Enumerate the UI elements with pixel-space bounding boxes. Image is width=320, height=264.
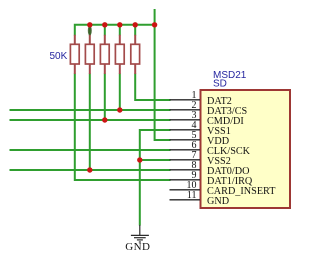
wire DAT0/DO row pin 8: [10, 169, 171, 171]
wire VSS2 pin 7: [140, 159, 171, 161]
pin 6 stub: [170, 149, 201, 151]
pin 10 stub: [170, 189, 201, 191]
pin 2 stub: [170, 109, 201, 111]
wire VSS1 pin 4 to GND vertical: [140, 130, 171, 226]
resistor R4: [119, 35, 121, 45]
wire VDD vertical to pin 5: [155, 9, 171, 140]
pin 11 stub: [170, 199, 201, 201]
svg-text:GND: GND: [125, 241, 150, 253]
junction dot R3 CMD row: [102, 117, 107, 122]
component U1 MSD21 SD connector box: [201, 90, 291, 208]
wire resistor R4 top: [119, 24, 121, 36]
svg-text:GND: GND: [207, 196, 229, 207]
wire R5 bottom to pin 1 DAT2: [135, 74, 170, 101]
wire resistor R5 top: [134, 24, 136, 36]
wire DAT3/CS row pin 2: [10, 109, 171, 111]
svg-text:SD: SD: [213, 79, 227, 90]
wire resistor R3 top: [104, 24, 106, 36]
svg-text:11: 11: [187, 190, 197, 201]
resistor R1: [74, 35, 76, 45]
pin 9 stub: [170, 179, 201, 181]
dark artifact under junction: [88, 26, 92, 36]
pin 3 stub: [170, 119, 201, 121]
wire CMD/DI row pin 3: [10, 119, 171, 121]
wire top bus: [75, 25, 155, 36]
pin 4 stub: [170, 129, 201, 131]
pin 5 stub: [170, 139, 201, 141]
wire R1 bottom to pin 9 DAT1/IRQ: [75, 74, 171, 181]
junction dot R4 DAT3 row: [117, 107, 122, 112]
junction dot VSS2: [137, 157, 142, 162]
junction dot bus R4: [117, 22, 122, 27]
wire resistor R2 top: [89, 24, 91, 36]
wire R2 bottom to DAT0 row: [89, 74, 91, 171]
resistor R2: [89, 35, 91, 45]
wire CLK/SCK row pin 6: [10, 149, 171, 151]
wire R3 bottom to CMD row: [104, 74, 106, 121]
pin 7 stub: [170, 159, 201, 161]
ground symbol: [131, 225, 149, 242]
resistor R3: [104, 35, 106, 45]
junction dot bus VDD: [152, 22, 157, 27]
junction dot bus R5: [133, 22, 138, 27]
junction dot bus R2: [87, 22, 92, 27]
junction dot bus R3: [102, 22, 107, 27]
resistor R5: [134, 35, 136, 45]
junction dot R2 DAT0 row: [87, 167, 92, 172]
wire R4 bottom to DAT3 row: [119, 74, 121, 111]
pin 1 stub: [170, 99, 201, 101]
svg-text:50K: 50K: [50, 51, 68, 62]
pin 8 stub: [170, 169, 201, 171]
